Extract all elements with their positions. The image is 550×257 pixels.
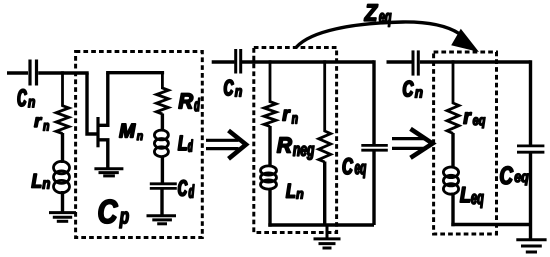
label rn middle: [283, 110, 298, 124]
ground Mn source: [94, 169, 123, 176]
wire Cn right to Ceq corner: [420, 60, 531, 63]
ground Cd: [147, 216, 177, 224]
arrow Zeq curved: [297, 22, 480, 52]
inductor L_n: [54, 161, 70, 192]
label Ln left: [32, 174, 50, 189]
inductor L_eq: [443, 167, 458, 194]
capacitor C_d: [150, 184, 177, 189]
arrow implication 2: [392, 129, 433, 158]
resistor r_n middle: [264, 60, 276, 126]
wire R_d to L_d: [161, 114, 164, 131]
wire r_n to L_n middle: [268, 126, 271, 166]
wire Ceq middle branch top: [372, 60, 375, 144]
ground Ln: [49, 213, 76, 222]
wire Ceq middle branch bottom: [372, 150, 375, 225]
capacitor C_eq right: [517, 146, 544, 152]
label Ceq middle: [343, 158, 366, 178]
wire Cn middle to Ceq corner: [242, 60, 374, 63]
label Cp: [99, 200, 129, 228]
label Ld: [178, 136, 193, 152]
label R_neg: [277, 138, 314, 160]
resistor R_d: [156, 71, 168, 114]
ground right: [516, 240, 546, 252]
label Rd: [179, 94, 200, 112]
label Mn: [119, 124, 142, 140]
label Cn right: [403, 81, 422, 98]
wire Ceq right branch top: [529, 60, 532, 145]
label Zeq: [364, 4, 391, 26]
ground middle: [314, 225, 341, 248]
label Cd: [178, 180, 194, 198]
arrow implication 1: [206, 131, 246, 159]
inductor L_d: [154, 130, 168, 157]
wire r_eq to L_eq: [451, 133, 454, 168]
inductor L_n middle: [261, 166, 277, 189]
capacitor Cn left: [30, 60, 37, 86]
wire bottom middle: [268, 223, 374, 226]
resistor r_n: [56, 71, 69, 133]
wire Cn to gate node: [38, 71, 88, 74]
wire C_d to ground: [160, 188, 163, 215]
wire L_eq to bottom: [451, 193, 454, 227]
wire input right: [387, 60, 412, 63]
wire L_n middle to bottom: [268, 190, 271, 227]
box eq dashed right: [434, 52, 497, 234]
box Zin dashed middle: [254, 48, 337, 233]
wire drain top: [106, 71, 164, 74]
box Cp dashed: [76, 52, 203, 238]
label Leq: [460, 187, 483, 208]
label Cn middle: [224, 80, 241, 97]
wire r_n to L_n: [61, 133, 64, 163]
label Ln middle: [286, 184, 303, 199]
wire input middle: [212, 60, 235, 63]
label Cn left: [18, 89, 35, 107]
label rn left: [34, 118, 48, 131]
capacitor C_eq middle: [361, 145, 388, 150]
wire L_n to ground: [61, 191, 64, 213]
resistor r_eq: [447, 60, 459, 133]
wire Ceq right branch bottom: [529, 152, 532, 240]
wire input left: [7, 71, 28, 74]
wire bottom right: [451, 223, 530, 226]
transistor Mn: [98, 73, 108, 169]
capacitor Cn right: [413, 50, 418, 75]
label Ceq right: [500, 167, 528, 186]
wire L_d to C_d: [161, 157, 164, 184]
capacitor Cn middle: [236, 49, 241, 74]
label req: [464, 112, 485, 128]
wire R_neg to bottom: [323, 162, 326, 226]
resistor R_neg element: [319, 60, 331, 162]
wire gate feed: [87, 73, 97, 134]
